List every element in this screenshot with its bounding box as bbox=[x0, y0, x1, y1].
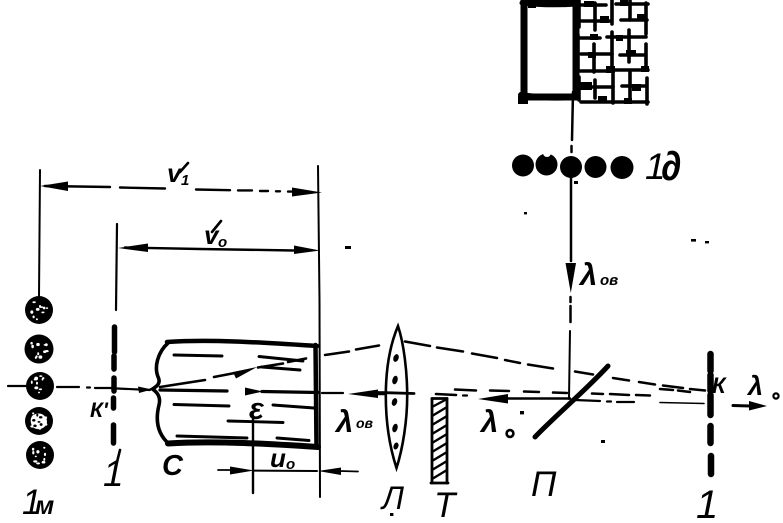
svg-text:∂: ∂ bbox=[661, 143, 681, 189]
svg-text:ов: ов bbox=[356, 415, 374, 431]
svg-text:П: П bbox=[531, 465, 557, 504]
svg-text:К: К bbox=[712, 373, 727, 398]
svg-text:К': К' bbox=[90, 399, 109, 422]
svg-text:Т: Т bbox=[434, 486, 458, 523]
svg-text:о: о bbox=[218, 234, 227, 251]
svg-text:Л: Л bbox=[380, 480, 404, 516]
svg-text:λ: λ bbox=[746, 371, 763, 401]
svg-text:λ: λ bbox=[479, 404, 498, 439]
svg-text:1: 1 bbox=[181, 172, 189, 189]
svg-text:u: u bbox=[270, 443, 286, 473]
svg-text:ε: ε bbox=[249, 391, 265, 426]
svg-text:м: м bbox=[35, 490, 54, 520]
svg-text:1: 1 bbox=[696, 483, 718, 523]
svg-text:ов: ов bbox=[600, 272, 618, 289]
svg-text:С: С bbox=[162, 450, 184, 482]
svg-text:1: 1 bbox=[103, 453, 124, 494]
svg-text:λ: λ bbox=[334, 404, 353, 439]
svg-text:о: о bbox=[286, 456, 295, 473]
svg-text:λ: λ bbox=[578, 257, 597, 292]
